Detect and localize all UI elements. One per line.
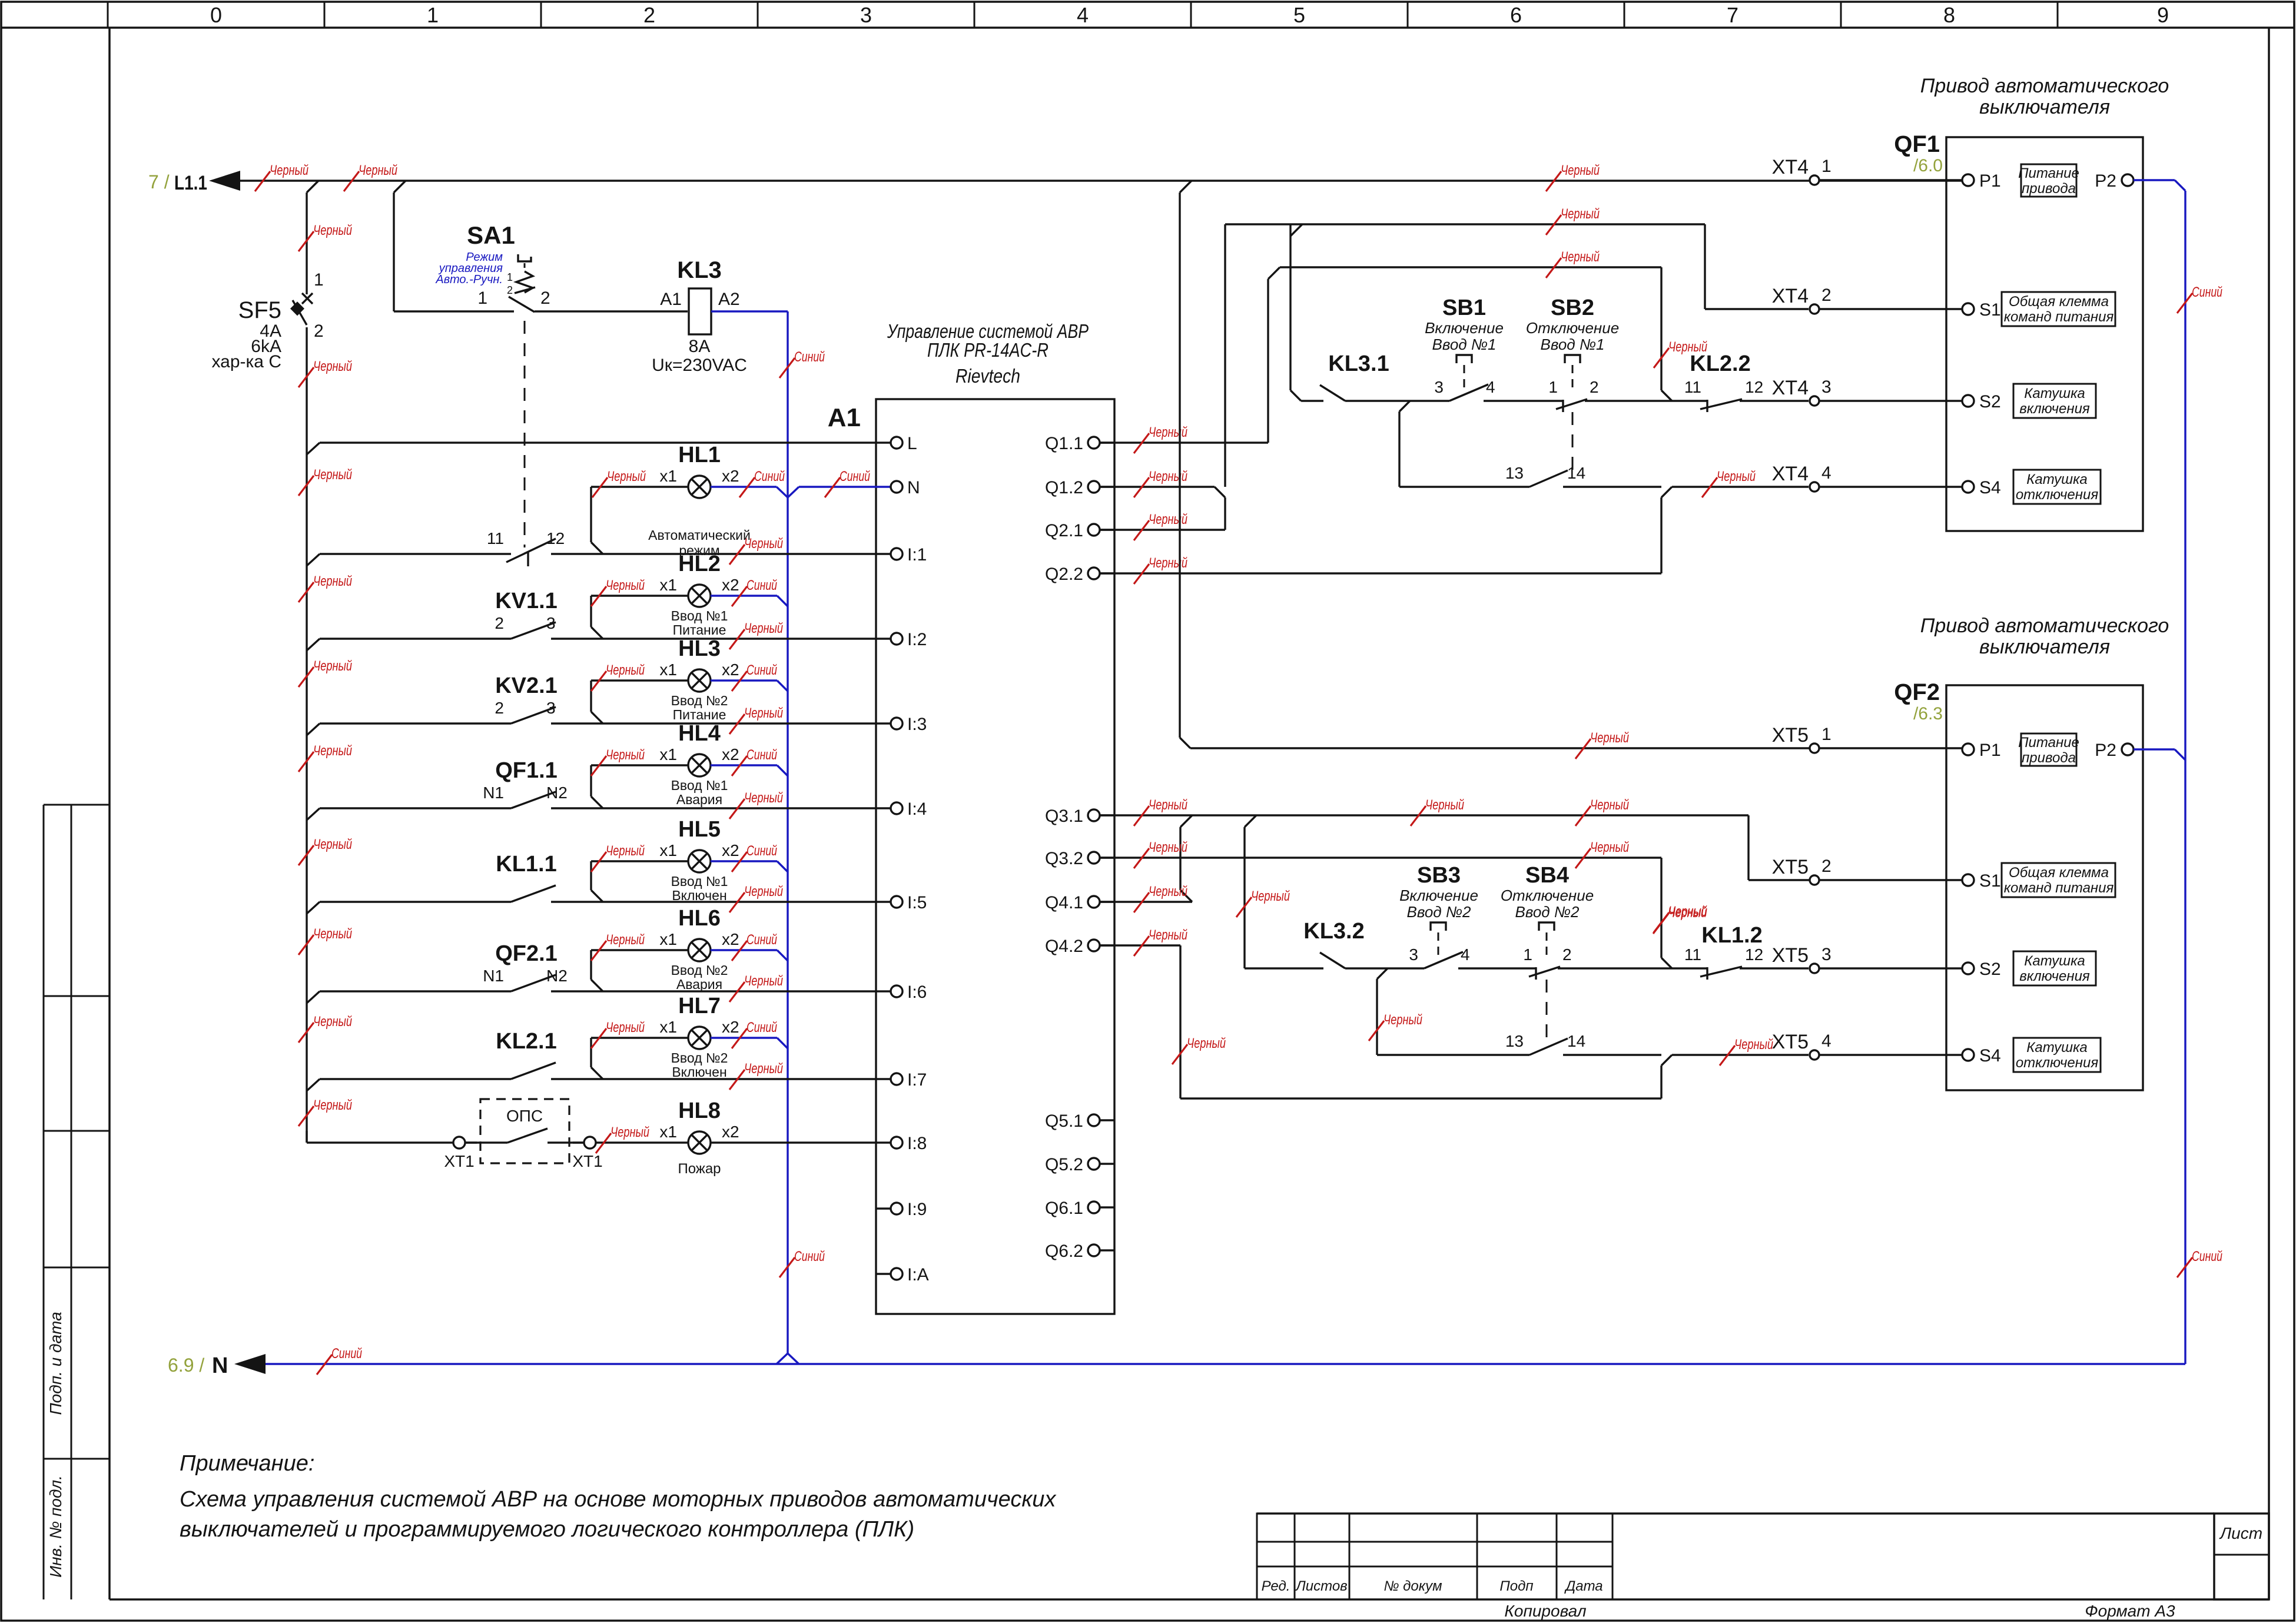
pin Q3.1 bbox=[1045, 806, 1114, 826]
terminal XT4.4 bbox=[1772, 463, 1962, 492]
lamp HL7 blue tail bbox=[591, 1020, 788, 1048]
svg-text:XT4: XT4 bbox=[1772, 156, 1809, 178]
PLC title bbox=[887, 320, 1089, 387]
svg-text:Синий: Синий bbox=[746, 577, 777, 593]
wire Q2.2 row bbox=[1100, 487, 1672, 573]
svg-text:3: 3 bbox=[1821, 945, 1832, 964]
svg-text:Черный: Черный bbox=[606, 1020, 645, 1035]
column ruler band bbox=[1, 2, 2294, 28]
QF1 S2 input bbox=[1962, 384, 2096, 418]
pin I:4 bbox=[876, 799, 927, 819]
contact SA1 bbox=[487, 529, 565, 566]
svg-text:Примечание:: Примечание: bbox=[180, 1451, 314, 1476]
contact KV1.1 bbox=[495, 589, 557, 639]
svg-text:хар-ка C: хар-ка C bbox=[212, 352, 282, 371]
junction XT5 feeder/L1.1 bbox=[1180, 181, 1192, 192]
svg-text:S4: S4 bbox=[1979, 478, 2001, 497]
svg-text:11: 11 bbox=[487, 529, 504, 547]
svg-text:Автоматический: Автоматический bbox=[648, 527, 751, 543]
svg-text:Черный: Черный bbox=[313, 467, 352, 483]
svg-text:Питание: Питание bbox=[2018, 165, 2079, 181]
svg-text:Черный: Черный bbox=[606, 932, 645, 948]
drive box QF1 bbox=[1894, 131, 2143, 531]
terminal XT5.1 bbox=[1772, 724, 1962, 753]
svg-text:HL1: HL1 bbox=[678, 443, 721, 467]
terminal XT5.2 bbox=[1772, 856, 1962, 885]
svg-text:I:4: I:4 bbox=[907, 799, 927, 819]
svg-text:x1: x1 bbox=[659, 1123, 677, 1141]
pin Q3.2 bbox=[1045, 849, 1114, 868]
pin I:7 bbox=[876, 1070, 927, 1090]
rung I:7 colour mark bbox=[729, 1061, 783, 1090]
svg-text:XT5: XT5 bbox=[1772, 944, 1809, 967]
svg-text:Черный: Черный bbox=[1734, 1037, 1773, 1053]
terminal XT4.1 bbox=[1772, 156, 1962, 185]
svg-text:N: N bbox=[907, 478, 920, 497]
left attachment strip bbox=[44, 805, 110, 1599]
svg-text:Привод автоматического: Привод автоматического bbox=[1920, 615, 2169, 637]
svg-text:I:A: I:A bbox=[907, 1265, 929, 1285]
svg-text:XT5: XT5 bbox=[1772, 1031, 1809, 1053]
svg-text:Черный: Черный bbox=[606, 577, 645, 593]
svg-text:I:6: I:6 bbox=[907, 983, 927, 1002]
svg-text:x1: x1 bbox=[659, 576, 677, 594]
pin Q4.2 bbox=[1045, 937, 1114, 956]
svg-text:2: 2 bbox=[507, 284, 513, 296]
svg-text:Черный: Черный bbox=[1717, 469, 1756, 484]
rung I:6 colour mark bbox=[729, 973, 783, 1002]
svg-text:SF5: SF5 bbox=[238, 297, 281, 323]
svg-text:S1: S1 bbox=[1979, 871, 2001, 891]
terminal XT1 right bbox=[572, 1137, 602, 1170]
svg-text:Ввод №2: Ввод №2 bbox=[671, 962, 728, 978]
svg-text:Черный: Черный bbox=[1425, 797, 1464, 813]
svg-text:x1: x1 bbox=[659, 1018, 677, 1036]
svg-text:I:3: I:3 bbox=[907, 715, 927, 734]
svg-text:2: 2 bbox=[1821, 857, 1832, 876]
svg-text:Ввод №1: Ввод №1 bbox=[1540, 336, 1604, 353]
svg-text:Черный: Черный bbox=[1668, 904, 1707, 920]
svg-text:Черный: Черный bbox=[1561, 206, 1600, 222]
svg-text:включения: включения bbox=[2019, 401, 2090, 417]
svg-text:SB2: SB2 bbox=[1551, 296, 1594, 320]
lamp HL4 bbox=[659, 721, 739, 807]
pin Q6.1 bbox=[1045, 1199, 1114, 1218]
svg-text:3: 3 bbox=[1821, 377, 1832, 397]
svg-text:Q3.2: Q3.2 bbox=[1045, 849, 1083, 868]
contact KL1.1 bbox=[496, 852, 556, 902]
svg-text:Черный: Черный bbox=[1149, 469, 1187, 484]
breaker SF5 bbox=[212, 270, 324, 371]
svg-text:Черный: Черный bbox=[313, 223, 352, 238]
svg-text:L: L bbox=[907, 434, 917, 453]
svg-text:Черный: Черный bbox=[313, 359, 352, 374]
wire XT4 feeder from Q outputs bbox=[1100, 267, 1672, 443]
svg-text:Копировал: Копировал bbox=[1504, 1602, 1586, 1620]
lamp HL2 branch wire bbox=[591, 596, 688, 639]
svg-text:Черный: Черный bbox=[270, 162, 308, 178]
wire rung I:8 bbox=[307, 1131, 876, 1143]
svg-text:1: 1 bbox=[427, 3, 439, 27]
svg-text:5: 5 bbox=[1293, 3, 1305, 27]
svg-text:Листов: Листов bbox=[1295, 1578, 1347, 1594]
lamp HL4 branch wire bbox=[591, 765, 688, 808]
svg-text:Q6.1: Q6.1 bbox=[1045, 1199, 1083, 1218]
drive box QF2 bbox=[1894, 679, 2143, 1090]
svg-text:выключателя: выключателя bbox=[1979, 96, 2110, 118]
svg-text:XT4: XT4 bbox=[1772, 377, 1809, 399]
svg-text:x2: x2 bbox=[722, 745, 739, 764]
svg-text:Авто.-Ручн.: Авто.-Ручн. bbox=[435, 273, 503, 286]
svg-text:Q4.2: Q4.2 bbox=[1045, 937, 1083, 956]
svg-text:HL8: HL8 bbox=[678, 1098, 721, 1123]
svg-text:включения: включения bbox=[2019, 968, 2090, 984]
svg-text:Синий: Синий bbox=[746, 747, 777, 763]
svg-text:команд питания: команд питания bbox=[2004, 880, 2114, 896]
svg-text:SB1: SB1 bbox=[1442, 296, 1486, 320]
button SB2 bbox=[1526, 296, 1619, 471]
QF1 S1 input bbox=[1962, 292, 2115, 326]
svg-text:Черный: Черный bbox=[606, 747, 645, 763]
svg-text:Ред.: Ред. bbox=[1262, 1578, 1290, 1594]
svg-text:12: 12 bbox=[1745, 378, 1763, 396]
svg-text:HL3: HL3 bbox=[678, 636, 721, 661]
svg-text:3: 3 bbox=[1434, 378, 1444, 396]
svg-text:/6.0: /6.0 bbox=[1913, 156, 1943, 175]
svg-text:Черный: Черный bbox=[1668, 339, 1707, 355]
net L1.1 top line bbox=[148, 171, 1962, 194]
lamp HL1 bbox=[648, 443, 751, 558]
svg-text:Пожар: Пожар bbox=[678, 1161, 721, 1177]
net N bottom bus bbox=[168, 1346, 2185, 1378]
QF2 P1 input bbox=[1962, 733, 2134, 766]
wire L feeder bbox=[307, 443, 876, 454]
svg-text:11: 11 bbox=[1684, 378, 1701, 396]
svg-text:8A: 8A bbox=[689, 337, 711, 356]
wire colour marks on L1.1 bbox=[255, 162, 1600, 191]
svg-text:7: 7 bbox=[1727, 3, 1738, 27]
svg-text:6.9 /: 6.9 / bbox=[168, 1355, 204, 1376]
section title QF2 bbox=[1920, 615, 2169, 658]
svg-text:SB3: SB3 bbox=[1417, 863, 1461, 888]
svg-text:Черный: Черный bbox=[611, 1124, 649, 1140]
svg-text:HL7: HL7 bbox=[678, 994, 721, 1018]
marks on feeders bbox=[1134, 206, 1600, 584]
svg-text:2: 2 bbox=[495, 614, 504, 632]
svg-text:Ввод №1: Ввод №1 bbox=[671, 874, 728, 889]
svg-text:Синий: Синий bbox=[746, 843, 777, 859]
svg-text:SA1: SA1 bbox=[467, 221, 515, 249]
svg-text:4: 4 bbox=[1486, 378, 1495, 396]
svg-text:Ввод №1: Ввод №1 bbox=[1432, 336, 1496, 353]
terminal XT4.2 bbox=[1772, 285, 1962, 314]
svg-text:Дата: Дата bbox=[1564, 1578, 1602, 1594]
svg-text:I:2: I:2 bbox=[907, 630, 927, 649]
pin I:8 bbox=[876, 1134, 927, 1153]
lamp HL5 branch wire bbox=[591, 861, 688, 902]
rung I:1 colour mark bbox=[729, 536, 783, 565]
pin N bbox=[876, 478, 920, 497]
svg-text:Катушка: Катушка bbox=[2024, 386, 2085, 401]
svg-text:Черный: Черный bbox=[606, 843, 645, 859]
lamp HL8 bbox=[596, 1098, 739, 1177]
svg-text:Ввод №1: Ввод №1 bbox=[671, 778, 728, 793]
pin Q1.2 bbox=[1045, 478, 1114, 497]
svg-text:Q6.2: Q6.2 bbox=[1045, 1242, 1083, 1261]
svg-text:Синий: Синий bbox=[754, 469, 785, 484]
wire XT5.1 feeder bbox=[1180, 192, 1810, 759]
pin I:5 bbox=[876, 893, 927, 912]
svg-text:XT4: XT4 bbox=[1772, 463, 1809, 485]
svg-text:Черный: Черный bbox=[1561, 162, 1600, 178]
svg-text:Черный: Черный bbox=[359, 162, 397, 178]
selector switch SA1 branch bbox=[394, 192, 688, 312]
svg-text:ОПС: ОПС bbox=[506, 1107, 543, 1125]
svg-text:N2: N2 bbox=[546, 967, 568, 985]
svg-text:Черный: Черный bbox=[1149, 555, 1187, 571]
svg-text:/6.3: /6.3 bbox=[1913, 704, 1943, 723]
contact KL3.2 bbox=[1303, 919, 1364, 968]
svg-text:14: 14 bbox=[1567, 1032, 1585, 1050]
title block table bbox=[1257, 1514, 2269, 1620]
svg-text:Ввод №1: Ввод №1 bbox=[671, 608, 728, 623]
lamp HL6 bbox=[659, 906, 739, 992]
QF1 S4 input bbox=[1962, 470, 2101, 504]
lamp HL5 blue tail bbox=[591, 843, 788, 872]
svg-text:A2: A2 bbox=[718, 290, 740, 309]
svg-text:Черный: Черный bbox=[313, 837, 352, 852]
lamp HL7 branch wire bbox=[591, 1038, 688, 1079]
svg-text:QF1.1: QF1.1 bbox=[495, 758, 558, 783]
svg-text:4: 4 bbox=[1461, 945, 1470, 964]
svg-text:2: 2 bbox=[495, 699, 504, 717]
svg-text:Ввод №2: Ввод №2 bbox=[1406, 903, 1471, 921]
svg-text:11: 11 bbox=[1684, 945, 1701, 964]
svg-text:Включен: Включен bbox=[672, 1064, 726, 1080]
svg-text:KL2.1: KL2.1 bbox=[496, 1029, 556, 1054]
svg-text:Синий: Синий bbox=[2192, 1249, 2222, 1264]
svg-text:4: 4 bbox=[1821, 1031, 1832, 1051]
contact SB2.13-14 bbox=[1505, 464, 1585, 487]
note text bbox=[180, 1451, 1057, 1542]
QF2 P2 blue wire bbox=[2134, 749, 2185, 760]
wire rung I:6 bbox=[307, 991, 876, 1003]
contact SB4.13-14 bbox=[1505, 1032, 1585, 1055]
svg-text:XT5: XT5 bbox=[1772, 724, 1809, 746]
svg-text:3: 3 bbox=[860, 3, 872, 27]
svg-text:1: 1 bbox=[1821, 157, 1832, 176]
svg-text:HL5: HL5 bbox=[678, 817, 721, 842]
svg-text:Подп: Подп bbox=[1499, 1578, 1533, 1594]
wire rung I:1 bbox=[307, 554, 876, 566]
svg-text:ПЛК PR-14AC-R: ПЛК PR-14AC-R bbox=[927, 339, 1049, 361]
svg-text:Общая клемма: Общая клемма bbox=[2009, 294, 2109, 310]
terminal XT1 left bbox=[444, 1137, 474, 1170]
svg-text:Черный: Черный bbox=[313, 658, 352, 674]
svg-text:4: 4 bbox=[1821, 463, 1832, 483]
svg-text:SB4: SB4 bbox=[1525, 863, 1569, 888]
svg-text:Синий: Синий bbox=[746, 662, 777, 678]
svg-text:1: 1 bbox=[507, 271, 513, 283]
pin I:A bbox=[876, 1265, 929, 1285]
svg-text:1: 1 bbox=[477, 288, 487, 308]
svg-text:Общая клемма: Общая клемма bbox=[2009, 865, 2109, 881]
SA1 labels and detent symbol bbox=[435, 221, 535, 296]
svg-text:Синий: Синий bbox=[746, 932, 777, 948]
svg-text:XT1: XT1 bbox=[572, 1152, 602, 1170]
svg-text:S2: S2 bbox=[1979, 960, 2001, 979]
svg-text:Черный: Черный bbox=[1590, 839, 1629, 855]
bus colour marks bbox=[298, 223, 352, 1043]
svg-text:Синий: Синий bbox=[794, 1249, 825, 1264]
svg-text:Черный: Черный bbox=[1149, 839, 1187, 855]
wire to XT4.4 bbox=[1672, 469, 1809, 497]
QF1 P1 input bbox=[1962, 164, 2134, 197]
svg-text:Синий: Синий bbox=[746, 1020, 777, 1035]
svg-text:Синий: Синий bbox=[2192, 284, 2222, 300]
wire rung I:7 bbox=[307, 1079, 876, 1091]
svg-text:A1: A1 bbox=[828, 403, 861, 432]
pin Q5.2 bbox=[1045, 1155, 1114, 1174]
svg-text:x1: x1 bbox=[659, 841, 677, 859]
wire control rung QF2 bbox=[1245, 967, 1809, 969]
svg-text:Черный: Черный bbox=[1561, 249, 1600, 265]
svg-text:KL3: KL3 bbox=[677, 257, 722, 283]
svg-text:2: 2 bbox=[540, 288, 550, 308]
lamp HL3 branch wire bbox=[591, 681, 688, 723]
svg-text:Черный: Черный bbox=[1149, 797, 1187, 813]
svg-text:HL6: HL6 bbox=[678, 906, 721, 931]
svg-text:KL1.1: KL1.1 bbox=[496, 852, 556, 877]
svg-text:3: 3 bbox=[1409, 945, 1418, 964]
pin Q6.2 bbox=[1045, 1242, 1114, 1261]
contact KV2.1 bbox=[495, 673, 557, 723]
svg-text:Q4.1: Q4.1 bbox=[1045, 893, 1083, 912]
blue N riser vertical bbox=[787, 311, 788, 1353]
lamp HL2 blue tail bbox=[591, 577, 788, 606]
svg-text:I:8: I:8 bbox=[907, 1134, 927, 1153]
svg-text:14: 14 bbox=[1567, 464, 1585, 482]
contact QF1.1 bbox=[483, 758, 568, 808]
svg-text:Питание: Питание bbox=[2018, 735, 2079, 751]
pin I:9 bbox=[876, 1200, 927, 1219]
svg-text:Подп. и дата: Подп. и дата bbox=[47, 1312, 65, 1415]
pin I:3 bbox=[876, 715, 927, 734]
svg-text:выключателя: выключателя bbox=[1979, 636, 2110, 658]
svg-text:12: 12 bbox=[1745, 945, 1763, 964]
svg-text:Q5.2: Q5.2 bbox=[1045, 1155, 1083, 1174]
svg-text:Черный: Черный bbox=[607, 469, 646, 484]
svg-text:Черный: Черный bbox=[313, 926, 352, 942]
svg-text:Питание: Питание bbox=[673, 622, 726, 638]
svg-text:I:7: I:7 bbox=[907, 1070, 927, 1090]
svg-text:Синий: Синий bbox=[331, 1346, 362, 1362]
pin Q2.1 bbox=[1045, 521, 1114, 540]
svg-text:P2: P2 bbox=[2095, 171, 2116, 191]
svg-text:S2: S2 bbox=[1979, 392, 2001, 411]
svg-text:Ввод №2: Ввод №2 bbox=[1515, 903, 1580, 921]
svg-text:x2: x2 bbox=[722, 467, 739, 485]
pin I:2 bbox=[876, 630, 927, 649]
svg-text:Включение: Включение bbox=[1425, 319, 1504, 337]
svg-text:QF1: QF1 bbox=[1894, 131, 1940, 157]
svg-text:4: 4 bbox=[1077, 3, 1089, 27]
left bus vertical bbox=[306, 192, 307, 1143]
svg-text:Отключение: Отключение bbox=[1501, 887, 1594, 904]
svg-text:XT4: XT4 bbox=[1772, 285, 1809, 307]
svg-text:1: 1 bbox=[1548, 378, 1558, 396]
pin Q5.1 bbox=[1045, 1111, 1114, 1131]
fire alarm box ОПС bbox=[465, 1096, 590, 1167]
svg-text:A1: A1 bbox=[660, 290, 682, 309]
pin Q1.1 bbox=[1045, 434, 1114, 453]
svg-text:Привод автоматического: Привод автоматического bbox=[1920, 75, 2169, 97]
SA1 actuator dashed link bbox=[524, 321, 526, 547]
svg-text:9: 9 bbox=[2157, 3, 2169, 27]
lamp HL1 blue tail bbox=[592, 469, 876, 497]
svg-text:Авария: Авария bbox=[676, 977, 722, 992]
contact KL2.2 bbox=[1654, 339, 1763, 412]
svg-text:I:9: I:9 bbox=[907, 1200, 927, 1219]
svg-text:Инв. № подл.: Инв. № подл. bbox=[47, 1475, 65, 1578]
svg-text:7 /: 7 / bbox=[148, 171, 170, 192]
svg-text:Rievtech: Rievtech bbox=[955, 365, 1020, 387]
svg-text:Uк=230VAC: Uк=230VAC bbox=[652, 356, 747, 375]
svg-text:QF2.1: QF2.1 bbox=[495, 941, 558, 966]
svg-text:Лист: Лист bbox=[2219, 1524, 2262, 1542]
svg-text:2: 2 bbox=[314, 321, 324, 341]
junction to SB2.13 rung bbox=[1399, 401, 1410, 487]
terminal XT5.3 bbox=[1772, 944, 1962, 973]
svg-text:Катушка: Катушка bbox=[2026, 472, 2088, 487]
terminal XT5.4 bbox=[1772, 1031, 1962, 1060]
wire rung I:2 bbox=[307, 639, 876, 650]
svg-text:x2: x2 bbox=[722, 576, 739, 594]
wire to XT5.4 bbox=[1672, 1037, 1809, 1066]
svg-text:Ввод №2: Ввод №2 bbox=[671, 1050, 728, 1066]
marks group2 q bbox=[1134, 797, 1187, 956]
svg-text:x1: x1 bbox=[659, 467, 677, 485]
button SB3 bbox=[1399, 863, 1478, 968]
svg-text:Катушка: Катушка bbox=[2026, 1040, 2088, 1056]
lamp HL3 bbox=[659, 636, 739, 722]
lamp HL5 bbox=[659, 817, 739, 903]
svg-text:Схема управления системой АВР: Схема управления системой АВР на основе … bbox=[180, 1487, 1057, 1512]
svg-text:Катушка: Катушка bbox=[2024, 953, 2085, 969]
svg-text:Черный: Черный bbox=[1187, 1035, 1226, 1051]
rung I:2 colour mark bbox=[729, 620, 783, 649]
wire Q4.2 line bbox=[1100, 945, 1672, 1098]
svg-text:KV2.1: KV2.1 bbox=[495, 673, 558, 698]
wire SB4.13 rung bbox=[1377, 1054, 1661, 1056]
PLC box A1 bbox=[828, 399, 1114, 1314]
svg-text:6: 6 bbox=[1510, 3, 1522, 27]
QF2 S2 input bbox=[1962, 951, 2096, 985]
svg-text:Отключение: Отключение bbox=[1526, 319, 1619, 337]
svg-text:отключения: отключения bbox=[2016, 487, 2099, 503]
svg-text:Q3.1: Q3.1 bbox=[1045, 806, 1083, 826]
svg-text:x2: x2 bbox=[722, 930, 739, 948]
pin Q2.2 bbox=[1045, 565, 1114, 584]
svg-text:x2: x2 bbox=[722, 661, 739, 679]
svg-text:S1: S1 bbox=[1979, 300, 2001, 320]
svg-text:x1: x1 bbox=[659, 930, 677, 948]
svg-text:2: 2 bbox=[1590, 378, 1599, 396]
wire rung I:5 bbox=[307, 902, 876, 914]
blue riser right bbox=[2177, 191, 2222, 1353]
svg-text:8: 8 bbox=[1943, 3, 1955, 27]
rung I:5 colour mark bbox=[729, 884, 783, 912]
